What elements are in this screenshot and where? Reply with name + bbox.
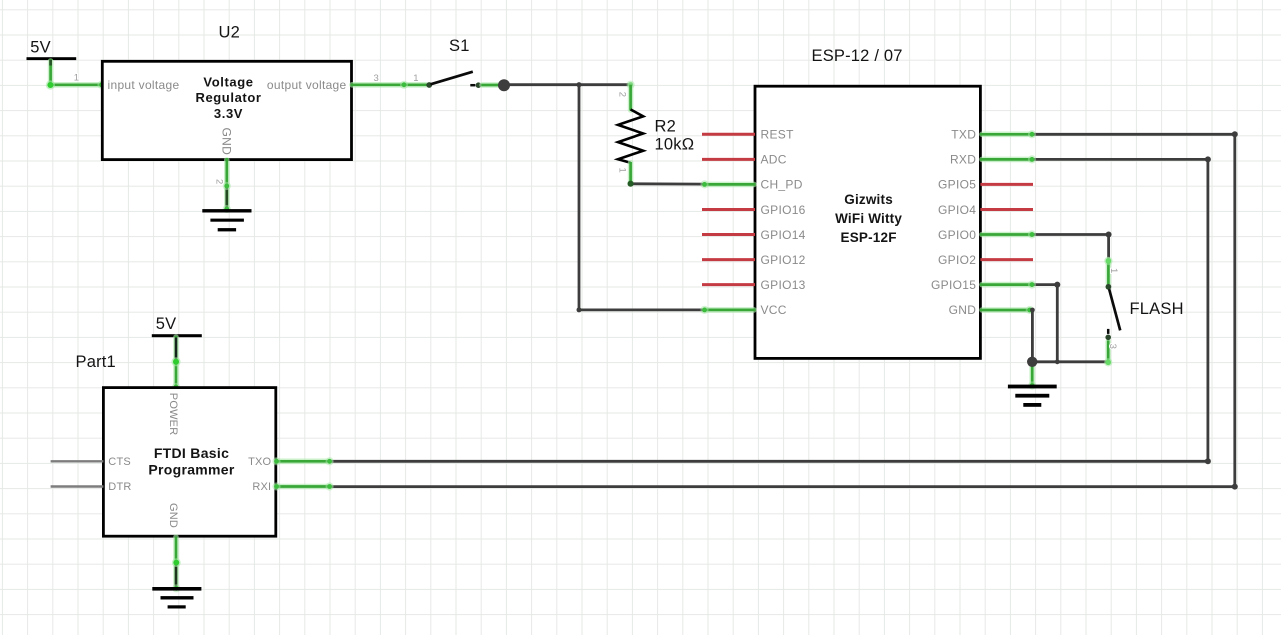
- svg-text:VCC: VCC: [761, 303, 787, 317]
- svg-text:TXO: TXO: [248, 456, 271, 468]
- svg-text:ADC: ADC: [761, 153, 787, 167]
- svg-text:2: 2: [617, 92, 628, 97]
- svg-text:1: 1: [413, 73, 418, 84]
- svg-text:GPIO0: GPIO0: [938, 228, 976, 242]
- svg-text:GPIO12: GPIO12: [761, 253, 806, 267]
- svg-text:RXD: RXD: [950, 153, 976, 167]
- svg-text:10kΩ: 10kΩ: [655, 135, 695, 153]
- svg-text:FTDI Basic: FTDI Basic: [154, 445, 229, 461]
- svg-text:CH_PD: CH_PD: [761, 178, 803, 192]
- svg-text:ESP-12F: ESP-12F: [841, 230, 897, 245]
- svg-text:output voltage: output voltage: [267, 78, 347, 92]
- svg-text:GPIO5: GPIO5: [938, 178, 976, 192]
- svg-text:FLASH: FLASH: [1130, 300, 1184, 318]
- svg-text:Part1: Part1: [76, 353, 116, 371]
- svg-text:RXI: RXI: [252, 481, 271, 493]
- svg-text:Gizwits: Gizwits: [844, 192, 893, 207]
- svg-text:5V: 5V: [156, 315, 177, 333]
- svg-text:POWER: POWER: [167, 393, 179, 436]
- svg-text:GPIO15: GPIO15: [931, 278, 976, 292]
- svg-text:1: 1: [74, 72, 79, 83]
- svg-text:ESP-12 / 07: ESP-12 / 07: [812, 47, 903, 65]
- svg-text:GPIO2: GPIO2: [938, 253, 976, 267]
- svg-text:Programmer: Programmer: [148, 461, 235, 477]
- svg-text:3.3V: 3.3V: [214, 106, 243, 121]
- svg-text:S1: S1: [449, 37, 470, 55]
- svg-text:DTR: DTR: [108, 481, 131, 493]
- svg-text:GND: GND: [220, 128, 234, 156]
- svg-text:REST: REST: [761, 128, 795, 142]
- svg-text:GND: GND: [949, 303, 977, 317]
- svg-text:Voltage: Voltage: [203, 75, 253, 90]
- svg-text:GPIO4: GPIO4: [938, 203, 976, 217]
- svg-text:GND: GND: [167, 503, 179, 528]
- svg-text:5V: 5V: [30, 39, 51, 57]
- svg-text:GPIO16: GPIO16: [761, 203, 806, 217]
- svg-text:R2: R2: [655, 117, 677, 135]
- svg-text:2: 2: [214, 179, 225, 184]
- svg-text:CTS: CTS: [108, 456, 131, 468]
- svg-text:TXD: TXD: [951, 128, 976, 142]
- svg-text:GPIO14: GPIO14: [761, 228, 806, 242]
- svg-text:GPIO13: GPIO13: [761, 278, 806, 292]
- svg-text:WiFi Witty: WiFi Witty: [835, 211, 902, 226]
- svg-text:1: 1: [1108, 268, 1119, 273]
- svg-text:input voltage: input voltage: [108, 78, 180, 92]
- svg-text:U2: U2: [219, 23, 241, 41]
- svg-text:3: 3: [374, 73, 379, 84]
- svg-text:3: 3: [1107, 344, 1118, 349]
- svg-text:1: 1: [617, 168, 628, 173]
- svg-text:Regulator: Regulator: [195, 90, 261, 105]
